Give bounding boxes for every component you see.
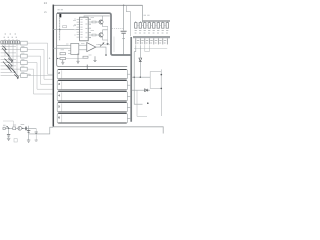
svg-text:24: 24 [44,1,48,5]
svg-text:+: + [49,57,51,61]
